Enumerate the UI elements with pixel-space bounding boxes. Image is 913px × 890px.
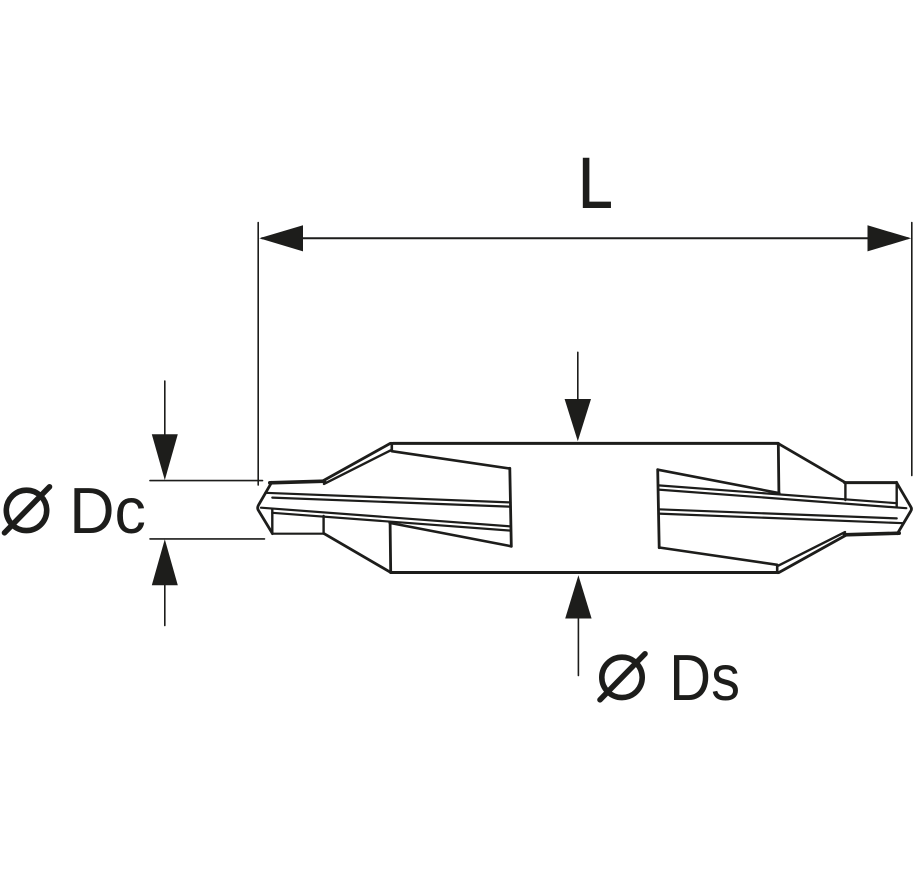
svg-text:L: L — [578, 145, 613, 224]
svg-text:Dc: Dc — [69, 474, 146, 547]
svg-text:Ds: Ds — [669, 642, 740, 715]
